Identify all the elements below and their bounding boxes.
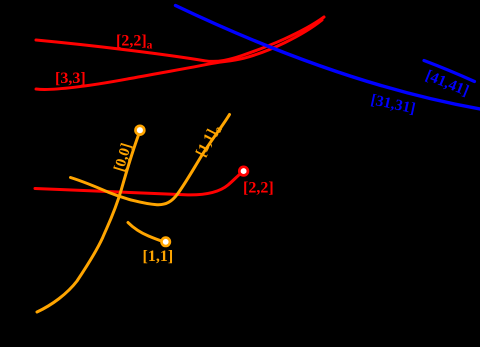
curve [3,3] (red lower branch, merges and rises below) xyxy=(36,20,322,89)
curve [41,41] (short blue line) xyxy=(424,61,475,82)
svg-text:[3,3]: [3,3] xyxy=(55,70,86,87)
node [1,1] (orange ring, white center) xyxy=(162,238,170,246)
curve [31,31] (main blue curve) xyxy=(176,6,480,110)
curve [0,0] ray (orange, from ring sweeping down-left) xyxy=(37,136,138,313)
curve [1,1]a ray (orange, from tip through dip up to top tip) xyxy=(71,115,230,205)
red baseline curve hooking up to node [2,2] xyxy=(35,175,240,195)
svg-text:[2,2]: [2,2] xyxy=(243,180,274,197)
curve [2,2]a (red upper branch, merges and rises to tip) xyxy=(36,17,324,61)
svg-text:[1,1]: [1,1] xyxy=(143,248,174,265)
node [2,2] (red ring, white center) xyxy=(239,167,248,176)
curve to node [1,1] (small orange arc) xyxy=(128,223,161,241)
node [0,0] (orange ring, white center) xyxy=(136,126,145,135)
